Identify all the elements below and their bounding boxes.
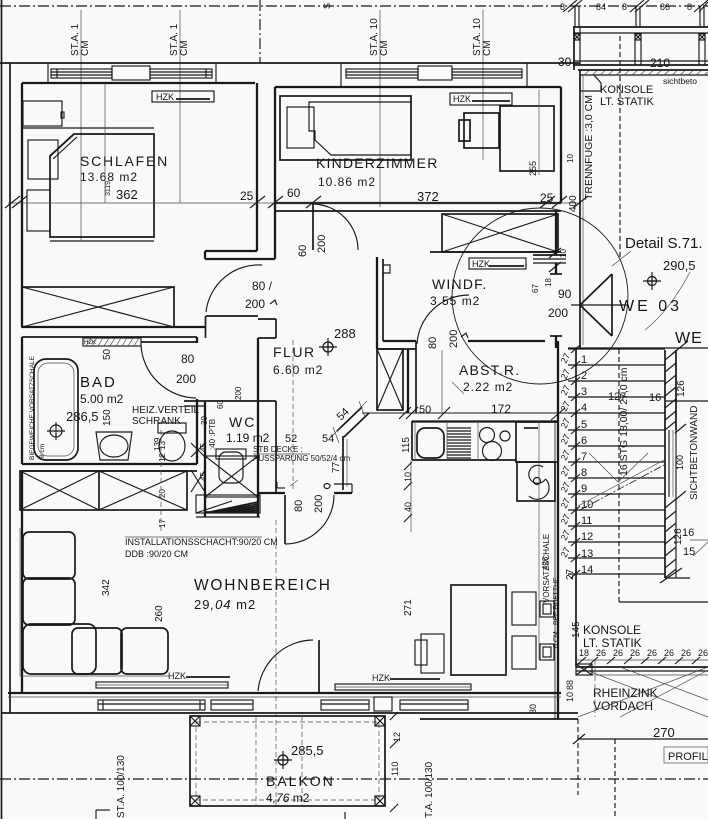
svg-text::40 :PTB: :40 :PTB xyxy=(208,419,217,450)
vordach X pattern xyxy=(578,667,708,717)
svg-text:ST.A. 100/130: ST.A. 100/130 xyxy=(116,755,127,818)
bad toilet xyxy=(158,423,186,433)
svg-text:16: 16 xyxy=(682,527,694,539)
bad left inner face xyxy=(21,337,23,464)
sofa cushion 4 xyxy=(121,628,168,674)
window kinder 2 xyxy=(452,69,522,78)
svg-text:80: 80 xyxy=(181,352,195,366)
svg-text:LT. STATIK: LT. STATIK xyxy=(600,96,654,108)
svg-text:288: 288 xyxy=(334,326,356,341)
bottom window 3 xyxy=(400,700,468,710)
svg-text:145: 145 xyxy=(571,621,582,638)
bottom wall of building xyxy=(8,692,561,694)
bed pillow fold xyxy=(50,134,74,156)
svg-text:26: 26 xyxy=(613,648,623,658)
svg-text:127: 127 xyxy=(608,391,626,403)
svg-text:WINDF.: WINDF. xyxy=(432,276,487,292)
wc wall tick X lower xyxy=(191,470,205,492)
svg-text:60: 60 xyxy=(216,400,225,409)
kitchen counter bottom xyxy=(412,459,516,461)
svg-text:HZK: HZK xyxy=(84,340,96,346)
svg-text:CM: CM xyxy=(179,40,190,56)
dim line with ticks xyxy=(576,659,708,661)
kinderzimmer bed xyxy=(280,96,411,160)
svg-text:27: 27 xyxy=(559,433,572,446)
svg-text:CM: CM xyxy=(379,40,390,56)
svg-text:286,5: 286,5 xyxy=(66,409,99,424)
schlafen bottom wall upper line xyxy=(22,326,205,328)
svg-text:26: 26 xyxy=(647,648,657,658)
flur-wohn door arc xyxy=(285,495,334,544)
flur top wall lower line xyxy=(205,258,275,260)
diagonal tick abst xyxy=(452,382,464,394)
balcony door threshold xyxy=(374,697,392,711)
page edge line left xyxy=(1,0,3,819)
svg-text:40: 40 xyxy=(403,502,413,512)
balcony inner dashed xyxy=(196,722,379,800)
svg-text:200: 200 xyxy=(548,306,568,320)
schlafen closet xyxy=(23,101,62,126)
svg-text:INSTALLATIONSSCHACHT:90/20 CM: INSTALLATIONSSCHACHT:90/20 CM xyxy=(125,537,278,547)
dishwasher spiral xyxy=(529,465,546,483)
apartment right wall lower xyxy=(557,341,559,719)
svg-text:126: 126 xyxy=(676,380,687,397)
bad tub xyxy=(34,359,78,460)
svg-text:27: 27 xyxy=(565,568,576,580)
svg-text:TRENNFUGE :3,0 CM: TRENNFUGE :3,0 CM xyxy=(583,95,595,200)
hatched trennfuge strip top xyxy=(580,74,708,76)
svg-text:260: 260 xyxy=(154,605,165,622)
svg-text:5.00 m2: 5.00 m2 xyxy=(80,392,124,406)
svg-text:210: 210 xyxy=(650,56,670,70)
svg-text:200: 200 xyxy=(176,372,196,386)
top datum tick marks xyxy=(563,0,577,12)
windf wall step xyxy=(383,265,390,273)
svg-text:372: 372 xyxy=(417,189,439,204)
kitchen burners xyxy=(480,428,495,443)
svg-text:KONSOLE: KONSOLE xyxy=(583,623,641,637)
tick marks near entry xyxy=(549,248,561,258)
svg-text:7: 7 xyxy=(581,451,587,463)
svg-text:6: 6 xyxy=(581,435,587,447)
right hatched wall upper xyxy=(664,350,666,430)
svg-text:84: 84 xyxy=(596,2,606,12)
svg-text:16: 16 xyxy=(649,392,661,404)
svg-text:27: 27 xyxy=(559,497,572,510)
schlafen wardrobe crossed box xyxy=(22,287,174,327)
window kinder 1 xyxy=(346,69,418,78)
wall channel middle xyxy=(668,430,670,497)
schlafen door arc xyxy=(206,265,262,312)
kitchen drainboard xyxy=(447,428,471,458)
windf bottom wall xyxy=(383,340,416,342)
windf top line xyxy=(430,251,561,253)
svg-text:26: 26 xyxy=(664,648,674,658)
wohnbereich left inner face xyxy=(21,471,23,693)
svg-text:271: 271 xyxy=(403,599,414,616)
terrace door leaf xyxy=(318,640,320,693)
kitchen dishwasher xyxy=(517,462,555,501)
dashed verticals bottom right xyxy=(577,719,579,795)
axis line C xyxy=(379,10,381,207)
svg-text:67: 67 xyxy=(531,284,540,293)
svg-text:27: 27 xyxy=(559,449,572,462)
svg-text:WOHNBEREICH: WOHNBEREICH xyxy=(194,577,332,594)
kitchen sink xyxy=(417,428,444,458)
svg-text:WE: WE xyxy=(675,330,703,347)
svg-text:2.22 m2: 2.22 m2 xyxy=(463,380,513,394)
svg-text:110: 110 xyxy=(390,762,400,776)
WE level line xyxy=(568,347,708,349)
svg-text:80 /: 80 / xyxy=(252,279,273,293)
svg-text:CM: CM xyxy=(80,40,91,56)
wc toilet xyxy=(216,449,246,459)
closet shelf line xyxy=(22,127,154,129)
bottom left wall marks xyxy=(95,810,97,819)
svg-text:16 STG 18,00/ 27,0 cm: 16 STG 18,00/ 27,0 cm xyxy=(618,367,630,476)
svg-text:S: S xyxy=(322,3,332,9)
bad bottom wall xyxy=(22,463,197,465)
svg-text:5: 5 xyxy=(581,419,587,431)
svg-text:8: 8 xyxy=(687,2,692,12)
stair steps xyxy=(568,348,665,350)
svg-text:RHEINZINK: RHEINZINK xyxy=(593,686,658,700)
svg-text:BALKON: BALKON xyxy=(266,773,335,789)
kitchen left edge xyxy=(411,421,413,460)
svg-text:SCHLAFEN: SCHLAFEN xyxy=(80,153,169,169)
schlafen door leaf xyxy=(206,315,258,317)
schlafen left inner face xyxy=(21,83,23,327)
X-box wardrobe windf top xyxy=(442,214,558,252)
svg-text:100: 100 xyxy=(675,455,685,470)
svg-text:12: 12 xyxy=(581,531,593,543)
svg-text:77: 77 xyxy=(331,461,342,473)
svg-text:52: 52 xyxy=(285,433,297,445)
trennfuge gap line xyxy=(582,75,584,345)
svg-text:HZK: HZK xyxy=(156,92,174,102)
svg-text:150: 150 xyxy=(102,409,113,426)
svg-text:115: 115 xyxy=(401,437,412,453)
svg-text:50: 50 xyxy=(419,404,431,416)
svg-text:80: 80 xyxy=(427,337,439,349)
windf HZK xyxy=(469,258,526,269)
svg-text:T.A. 100/130: T.A. 100/130 xyxy=(424,761,435,818)
bad door arc xyxy=(141,345,196,398)
detail leader xyxy=(612,251,631,266)
kinder window jambs xyxy=(340,63,342,87)
entrance opening jambs xyxy=(555,263,557,274)
kinder bed pillow xyxy=(287,107,314,148)
svg-text:VORDACH: VORDACH xyxy=(593,699,653,713)
double crossed box below bad xyxy=(20,471,187,510)
svg-text:342: 342 xyxy=(101,579,112,596)
tub faucet xyxy=(50,425,62,437)
svg-text:DDB :90/20 CM: DDB :90/20 CM xyxy=(125,549,188,559)
svg-text:26: 26 xyxy=(596,648,606,658)
svg-text:172: 172 xyxy=(491,402,511,416)
svg-text:Detail S.71.: Detail S.71. xyxy=(625,235,703,252)
sofa back edge xyxy=(19,528,21,676)
nightstand 1 xyxy=(28,140,58,179)
svg-text:FLUR: FLUR xyxy=(273,344,316,360)
svg-text:sichtbeto: sichtbeto xyxy=(663,76,697,86)
svg-text:STB DECKE :: STB DECKE : xyxy=(253,445,303,454)
svg-text:54: 54 xyxy=(322,433,334,445)
flur dashed axis down xyxy=(292,340,294,490)
svg-text:8: 8 xyxy=(581,467,587,479)
right wall jog windf window xyxy=(533,254,566,256)
building bottom line right of wall xyxy=(420,718,578,720)
kitchen fridge xyxy=(516,422,558,462)
svg-text:8: 8 xyxy=(560,2,565,12)
bottom window 2 xyxy=(211,700,253,710)
svg-text:BIEGEWEICHE VORSATZSCHALE: BIEGEWEICHE VORSATZSCHALE xyxy=(29,355,36,460)
bed foot line xyxy=(50,240,154,242)
kinder bed duvet xyxy=(309,102,411,155)
svg-text:HZK: HZK xyxy=(453,94,471,104)
svg-text:27: 27 xyxy=(559,529,572,542)
wall pier between kinder windows xyxy=(418,66,452,80)
svg-text:13: 13 xyxy=(581,548,593,560)
svg-text:285,5: 285,5 xyxy=(291,743,324,758)
axis line B xyxy=(179,10,181,203)
schlafen door jamb xyxy=(204,251,206,259)
chair right 1 xyxy=(512,592,536,625)
svg-text:86: 86 xyxy=(660,2,670,12)
svg-text:1.19 m2: 1.19 m2 xyxy=(226,431,270,445)
flur survey symbol xyxy=(323,342,333,352)
right building wall xyxy=(579,70,581,348)
kinderzimmer top inner wall face xyxy=(275,86,561,88)
sofa cushion 2 xyxy=(23,578,75,625)
bad door leaf xyxy=(141,341,197,343)
bad right wall xyxy=(196,337,198,343)
balcony corner posts xyxy=(190,716,200,726)
abst thin line xyxy=(441,350,443,413)
svg-text:26: 26 xyxy=(681,648,691,658)
svg-text:54: 54 xyxy=(335,406,352,423)
svg-text:18: 18 xyxy=(579,648,589,658)
abst left wall xyxy=(407,349,409,413)
kinder door leaf xyxy=(312,204,314,250)
svg-text:HEIZ.VERTEIL: HEIZ.VERTEIL xyxy=(132,405,199,416)
stair direction diagonals xyxy=(589,453,648,482)
balcony outer rect xyxy=(190,716,385,806)
dashed vertical x620 xyxy=(619,36,621,258)
svg-text:30: 30 xyxy=(558,55,572,69)
top dash-dot datum line xyxy=(0,5,708,7)
window jamb left xyxy=(47,63,49,83)
chamfer tick marks xyxy=(331,401,367,443)
svg-text:3119: 3119 xyxy=(105,181,112,196)
svg-text:BAD: BAD xyxy=(80,374,117,391)
konsole bracket box xyxy=(580,75,601,91)
flur bottom wall right piece xyxy=(334,492,352,494)
svg-text:1: 1 xyxy=(581,354,587,366)
bottom wall second line xyxy=(8,696,561,698)
svg-text:60: 60 xyxy=(297,245,309,257)
svg-text:4,76 m2: 4,76 m2 xyxy=(266,791,310,805)
flur top wall left piece xyxy=(205,250,257,252)
svg-text:290,5: 290,5 xyxy=(663,258,696,273)
svg-text:200: 200 xyxy=(245,297,265,311)
bad HZK radiator xyxy=(83,338,141,346)
top-right balcony railing xyxy=(573,26,708,28)
svg-text:80: 80 xyxy=(293,500,305,512)
svg-text:270: 270 xyxy=(653,725,675,740)
kinderzimmer bottom wall xyxy=(275,202,561,204)
wall between schlafen and kinderzimmer right xyxy=(274,87,276,259)
X-box installation shaft flur xyxy=(377,349,403,410)
svg-text:200: 200 xyxy=(313,495,325,513)
svg-text:27: 27 xyxy=(559,465,572,478)
svg-text:SCHRANK: SCHRANK xyxy=(132,416,181,427)
svg-text:200: 200 xyxy=(234,386,243,400)
wc top wall xyxy=(184,400,276,402)
bottom window 1 xyxy=(98,700,205,710)
railing post extensions to datum xyxy=(574,6,576,27)
nightstand 2 xyxy=(27,190,50,231)
kinder desk xyxy=(500,106,554,171)
windf bottom wall right piece xyxy=(468,340,545,342)
svg-text:KONSOLE: KONSOLE xyxy=(600,84,653,96)
axis line A xyxy=(80,10,82,240)
svg-text:88: 88 xyxy=(565,680,575,690)
kinder HZK box xyxy=(450,93,512,105)
flur bottom wall left xyxy=(258,492,285,494)
balcony dashed verticals xyxy=(255,716,257,806)
wc left wall xyxy=(204,402,206,517)
kitchen left wall below chamfer xyxy=(342,436,344,490)
schlafen HZK box xyxy=(152,91,214,102)
walkway railing double line xyxy=(576,666,708,668)
svg-text:400: 400 xyxy=(568,195,579,212)
curved leader from 290,5 xyxy=(645,272,690,330)
top wall line right portion xyxy=(578,69,708,71)
railing post 3 xyxy=(698,33,700,65)
dining table xyxy=(451,585,506,675)
wc wall tick X upper xyxy=(191,443,205,457)
kitchen diagonal corner wall xyxy=(337,407,362,431)
svg-text:13: 13 xyxy=(158,441,167,450)
wall pier between schlafen windows xyxy=(112,66,150,80)
svg-text:ABST.R.: ABST.R. xyxy=(459,362,520,378)
svg-text:30: 30 xyxy=(528,704,538,714)
svg-text:25: 25 xyxy=(240,189,254,203)
sofa corner xyxy=(23,624,96,674)
windf door arc xyxy=(417,295,469,344)
abst bottom / kitchen top xyxy=(412,420,558,422)
svg-text:27: 27 xyxy=(559,481,572,494)
wall between schlafen and kinderzimmer left xyxy=(256,83,258,251)
svg-text:15: 15 xyxy=(683,546,695,558)
dashdot vertical at x260 top xyxy=(259,0,261,63)
railing post 1 xyxy=(573,27,575,70)
svg-text:27: 27 xyxy=(559,417,572,430)
chair left xyxy=(421,634,444,673)
svg-text:6.60 m2: 6.60 m2 xyxy=(273,363,323,377)
schlafen door jamb lower xyxy=(205,316,207,338)
svg-text:17: 17 xyxy=(158,519,167,528)
bad washbasin xyxy=(96,432,132,460)
window schlafen 1 xyxy=(51,69,112,78)
wc crossed box xyxy=(205,456,258,497)
kinderzimmer right inner wall face xyxy=(560,87,562,203)
svg-text:WE 03: WE 03 xyxy=(619,298,682,315)
svg-text:3: 3 xyxy=(581,386,587,398)
railing end X xyxy=(576,664,592,675)
svg-text:27: 27 xyxy=(559,400,572,413)
door check mark xyxy=(290,480,298,486)
sofa cushion 1 xyxy=(23,532,75,579)
svg-text:14: 14 xyxy=(581,564,593,576)
svg-text:25: 25 xyxy=(540,191,554,205)
svg-text:10: 10 xyxy=(559,249,568,258)
step end ticks xyxy=(571,345,580,578)
bottom dash-dot datum line xyxy=(0,778,708,780)
svg-text:26: 26 xyxy=(630,648,640,658)
svg-text:10.86 m2: 10.86 m2 xyxy=(318,175,376,189)
svg-text:18: 18 xyxy=(544,278,553,287)
big door swing circle xyxy=(452,208,628,384)
svg-text:362: 362 xyxy=(116,187,138,202)
flur-wohn door leaf xyxy=(284,495,286,544)
svg-text:HZK: HZK xyxy=(472,259,490,269)
stair center dashed line xyxy=(618,349,620,602)
wc hatched step xyxy=(196,495,260,513)
balcony survey symbol xyxy=(278,755,288,765)
svg-text:60: 60 xyxy=(287,186,301,200)
svg-text:27: 27 xyxy=(559,352,572,365)
3119 vertical dim xyxy=(104,83,106,203)
survey symbol right xyxy=(648,277,657,286)
svg-text:200: 200 xyxy=(448,330,460,348)
kinder door arc xyxy=(313,204,358,250)
svg-text:KINDERZIMMER: KINDERZIMMER xyxy=(316,155,439,171)
svg-text:HZK: HZK xyxy=(168,671,186,681)
chair right 2 xyxy=(512,636,536,669)
svg-text:27: 27 xyxy=(559,384,572,397)
bed schlafen xyxy=(50,134,154,237)
kinder dim line 255 xyxy=(538,90,540,175)
svg-text:12: 12 xyxy=(158,453,167,462)
main dimension line y203 xyxy=(8,202,580,204)
svg-text:4: 4 xyxy=(581,402,587,414)
windf left wall xyxy=(376,257,378,349)
svg-text:8 cm: 8 cm xyxy=(39,444,46,458)
svg-text:29,04 m2: 29,04 m2 xyxy=(194,597,256,612)
svg-text:CM: CM xyxy=(482,40,493,56)
svg-text:255: 255 xyxy=(528,161,538,176)
top wall outer line xyxy=(0,62,580,64)
svg-text:200: 200 xyxy=(316,235,328,253)
schlafen bottom wall lower line / bad top xyxy=(22,336,197,338)
svg-text:WC: WC xyxy=(229,414,256,430)
kitchen dim line xyxy=(362,412,578,414)
kinder chair xyxy=(464,113,499,148)
closet handle xyxy=(61,112,64,118)
svg-text:9: 9 xyxy=(581,483,587,495)
svg-text:10: 10 xyxy=(403,472,413,482)
svg-text:SICHTBETONWAND: SICHTBETONWAND xyxy=(689,406,700,500)
svg-text:27: 27 xyxy=(559,546,572,559)
svg-text:90: 90 xyxy=(558,287,572,301)
entrance door triangle symbol xyxy=(580,274,612,305)
svg-text:26: 26 xyxy=(698,648,708,658)
svg-text:50: 50 xyxy=(102,348,113,360)
profil box xyxy=(664,747,708,763)
stair side wall line xyxy=(575,348,577,667)
